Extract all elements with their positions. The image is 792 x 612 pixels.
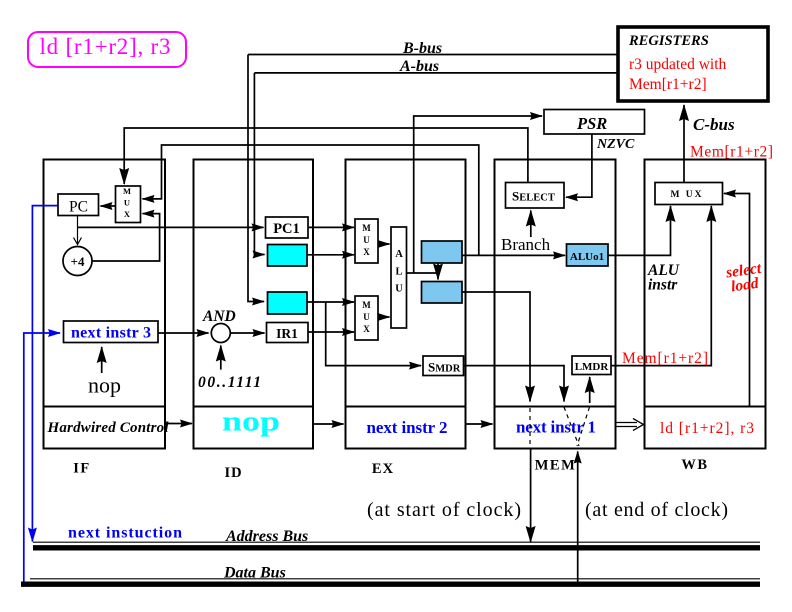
register B (cyan) (268, 292, 308, 314)
svg-text:A: A (395, 249, 403, 260)
box ALU (391, 227, 407, 328)
box LMDR (572, 356, 611, 375)
stage box EX (346, 160, 466, 449)
svg-text:nop: nop (88, 373, 121, 398)
svg-text:M: M (123, 186, 131, 196)
svg-text:Hardwired Control: Hardwired Control (47, 420, 170, 436)
wire C-bus to REGISTERS (683, 105, 685, 183)
box WB MUX (655, 183, 723, 205)
label select load (red) (724, 260, 765, 296)
box PSR (544, 110, 645, 135)
svg-text:X: X (124, 209, 131, 219)
box ALUo1 (blue) (567, 244, 609, 266)
box PC (58, 194, 99, 216)
svg-text:ld [r1+r2], r3: ld [r1+r2], r3 (40, 34, 171, 59)
svg-text:r3 updated with: r3 updated with (629, 56, 727, 73)
svg-text:nop: nop (222, 406, 280, 438)
wire B register to EX MUX2 (307, 301, 354, 303)
arrow IF to ID (166, 423, 193, 425)
svg-text:C-bus: C-bus (693, 115, 735, 134)
svg-text:PC1: PC1 (273, 221, 300, 237)
latch lower ALU result (blue) (422, 282, 463, 304)
svg-text:U: U (124, 198, 130, 208)
wire IR1 to EX MUX2 (308, 331, 354, 333)
stage box WB (645, 160, 766, 449)
svg-text:A-bus: A-bus (399, 58, 439, 75)
arrow Branch to SELECT (530, 211, 532, 238)
register A (cyan) (268, 245, 308, 267)
wire MUX2 to ALU (378, 316, 390, 318)
svg-text:MEM: MEM (535, 458, 577, 474)
svg-text:instr: instr (648, 277, 678, 294)
label ALU instr (647, 262, 680, 294)
adder +4 (63, 247, 92, 276)
address bus line (33, 542, 760, 548)
dashed load data up (577, 407, 590, 446)
wire B-bus to REGISTERS (248, 54, 618, 56)
svg-text:ALUo1: ALUo1 (570, 251, 604, 263)
wire A-bus down to A register (254, 73, 264, 255)
svg-text:Mem[r1+r2]: Mem[r1+r2] (690, 144, 773, 161)
wire ALU result down to MEM (462, 292, 530, 402)
wire PC1 to EX MUX1 (308, 226, 354, 228)
svg-text:PC: PC (69, 199, 88, 216)
svg-text:M: M (362, 300, 371, 310)
wire MEM to address bus (530, 449, 532, 543)
svg-text:X: X (363, 324, 370, 334)
svg-text:U: U (395, 284, 403, 295)
svg-text:EX: EX (372, 461, 394, 477)
wire A-bus to REGISTERS (254, 72, 618, 74)
svg-text:L: L (395, 267, 402, 278)
svg-text:next instr 2: next instr 2 (367, 418, 448, 437)
svg-text:(at start of clock): (at start of clock) (367, 499, 521, 521)
svg-text:Branch: Branch (501, 235, 551, 254)
box EX MUX2 (355, 296, 378, 340)
svg-text:NZVC: NZVC (596, 137, 635, 152)
svg-text:next instr 3: next instr 3 (71, 325, 151, 342)
wire B register to SMDR (326, 302, 421, 366)
arrow nop to next instr 3 (101, 347, 103, 373)
blue wire PC to address bus (32, 206, 58, 542)
svg-text:U: U (363, 312, 370, 322)
stage box MEM (495, 160, 616, 449)
wire ALU flags to PSR (414, 116, 542, 273)
svg-text:U: U (363, 235, 370, 245)
blue wire data bus to next instr 3 (24, 333, 60, 583)
wire select to WB MUX (724, 194, 750, 407)
stage box ID (194, 160, 314, 449)
double arrow MEM to WB (616, 419, 644, 431)
svg-text:next instr 1: next instr 1 (516, 418, 596, 437)
wire B-bus down to B register (248, 55, 264, 302)
svg-text:next instuction: next instuction (68, 525, 182, 542)
arrow 00..1111 to AND (220, 346, 222, 370)
svg-text:Mem[r1+r2]: Mem[r1+r2] (629, 76, 707, 93)
box SELECT (506, 183, 565, 209)
AND gate circle (211, 324, 230, 343)
wire latch upper to ALUo1 (462, 254, 565, 256)
latch upper (blue) (422, 241, 463, 263)
svg-text:00..1111: 00..1111 (198, 374, 261, 391)
svg-text:(at end of clock): (at end of clock) (585, 499, 728, 521)
arrow EX to MEM (466, 423, 493, 425)
stage box IF (44, 160, 166, 449)
svg-text:ld [r1+r2], r3: ld [r1+r2], r3 (660, 420, 754, 437)
box IF MUX (116, 186, 141, 223)
svg-text:AND: AND (202, 308, 236, 325)
wire next instr 3 to AND (158, 332, 209, 334)
wire IF MUX to PC (101, 205, 116, 207)
svg-text:X: X (363, 247, 370, 257)
data bus line (21, 579, 760, 584)
svg-text:LMDR: LMDR (575, 361, 610, 373)
svg-text:Mem[r1+r2]: Mem[r1+r2] (622, 350, 708, 367)
svg-text:PSR: PSR (576, 114, 607, 133)
REGISTERS box (618, 27, 768, 101)
wire data bus up to MEM (577, 452, 579, 583)
wire MUX1 to ALU (378, 243, 390, 245)
wire SMDR down to MEM (464, 366, 565, 402)
svg-text:REGISTERS: REGISTERS (628, 33, 709, 49)
wire A register to EX MUX1 (307, 254, 354, 256)
wire +4 loop to IF MUX (92, 214, 160, 261)
box SMDR (423, 356, 464, 376)
svg-text:+4: +4 (71, 254, 85, 269)
wire PC to PC1 (78, 226, 264, 228)
wire AND to IR1 (230, 332, 264, 334)
svg-text:IF: IF (73, 461, 91, 477)
wire latch upper to latch lower (437, 263, 439, 280)
box next instr 3 (64, 321, 159, 343)
arrow ID to EX (313, 423, 344, 425)
svg-text:ID: ID (224, 465, 242, 481)
svg-text:IR1: IR1 (276, 326, 298, 341)
dashed address through section (529, 408, 531, 447)
box EX MUX1 (355, 219, 378, 263)
wire PSR to SELECT (566, 134, 592, 197)
svg-text:M: M (362, 223, 371, 233)
box IR1 (267, 323, 309, 343)
wire SELECT to IF MUX (124, 128, 528, 184)
wire ALUo1 to WB MUX (608, 206, 671, 255)
arrow into LMDR from below (589, 377, 591, 403)
svg-text:B-bus: B-bus (402, 40, 442, 57)
dashed store data down (564, 407, 579, 446)
wire ALU out (407, 272, 439, 274)
instruction label box ld [r1+r2], r3 (28, 32, 186, 67)
wire PC down to +4 (74, 216, 82, 245)
svg-text:WB: WB (681, 457, 708, 473)
box PC1 (266, 217, 309, 238)
wire LMDR to WB MUX (611, 206, 711, 366)
wire branch target to IF MUX (143, 145, 479, 255)
svg-text:M UX: M UX (670, 190, 703, 200)
